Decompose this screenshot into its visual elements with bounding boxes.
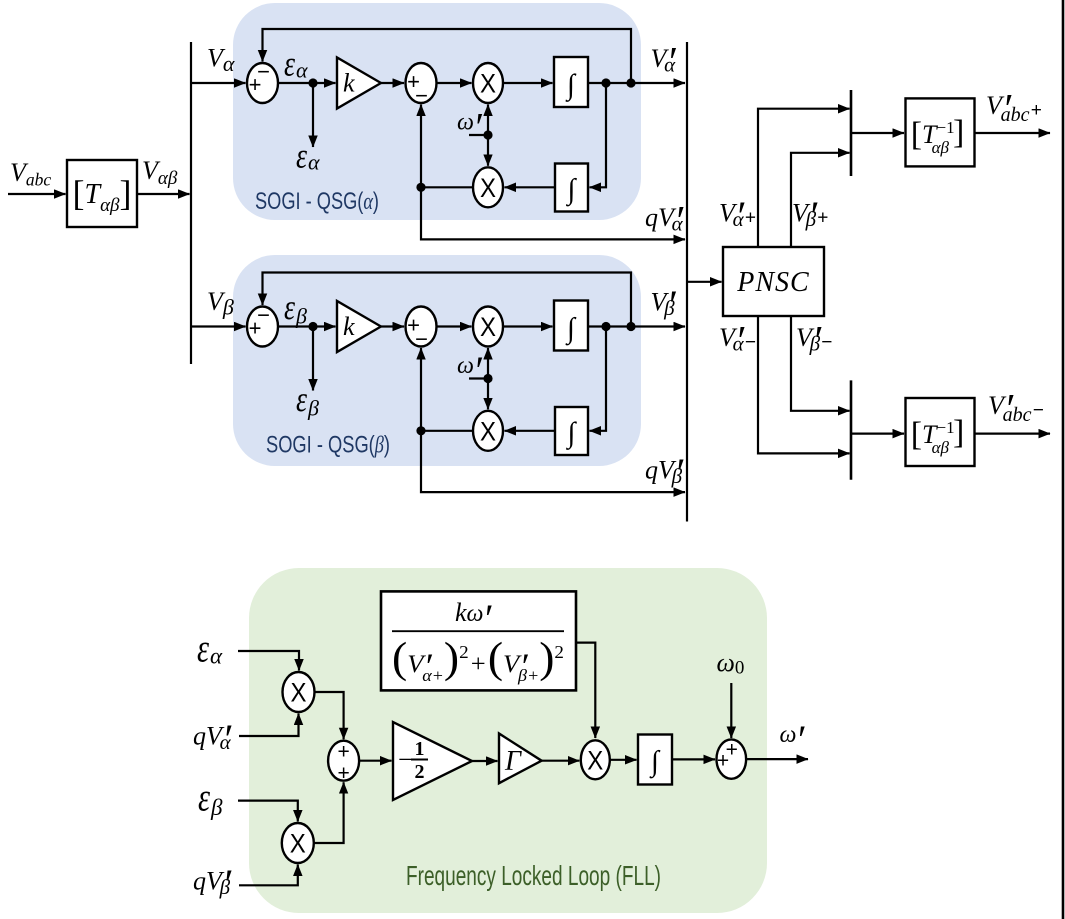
gain kb (triangle) bbox=[337, 301, 381, 352]
summer SF2 (+ +) bbox=[717, 739, 747, 778]
node dot eps branch bbox=[308, 78, 317, 87]
wire X1b to integrator I1b bbox=[503, 325, 553, 327]
svg-text:−: − bbox=[415, 327, 428, 352]
multiplier X1a bbox=[473, 63, 503, 103]
block Tab [T_ab] bbox=[67, 160, 137, 227]
wire eps_beta into X2f bbox=[238, 801, 298, 822]
SOGI-QSG(beta) background block bbox=[233, 255, 641, 466]
node dot feedback at output line bbox=[626, 78, 635, 87]
integrator IF bbox=[638, 735, 672, 785]
svg-text:[T−1αβ]: [T−1αβ] bbox=[911, 114, 965, 157]
wire qVb' into X2f bbox=[239, 865, 298, 886]
svg-text:k: k bbox=[343, 69, 355, 98]
wire omega' stub a bbox=[469, 134, 488, 136]
wire junction up to S2b minus input bbox=[420, 348, 422, 431]
wire X2a to junction bbox=[421, 186, 473, 188]
multiplier X2f bbox=[282, 823, 314, 863]
svg-text:ε: ε bbox=[296, 379, 308, 419]
svg-text:k: k bbox=[343, 312, 355, 341]
wire collector to Tab-inv (pos) bbox=[851, 132, 904, 134]
svg-text:β: β bbox=[307, 396, 319, 421]
block Tab-inv positive bbox=[906, 98, 975, 166]
svg-text:X: X bbox=[480, 173, 496, 203]
FLL background block bbox=[249, 568, 767, 913]
wire X1a to integrator I1a bbox=[503, 82, 553, 84]
wire omega' down into X2a bbox=[487, 135, 489, 166]
svg-text:X: X bbox=[480, 312, 496, 342]
svg-text:Frequency Locked Loop (FLL): Frequency Locked Loop (FLL) bbox=[406, 860, 661, 891]
wire eps_beta tap (down arrow) bbox=[312, 327, 314, 391]
node dot omega' center a bbox=[483, 130, 492, 139]
wire omega' stub b bbox=[469, 377, 488, 379]
wire Vabc into Tab bbox=[8, 193, 66, 195]
wire Vbeta into summer S1b bbox=[191, 325, 246, 327]
wire IF to summer SF2 bbox=[672, 758, 715, 760]
svg-text:+: + bbox=[337, 741, 349, 764]
svg-text:−: − bbox=[257, 59, 270, 84]
SOGI-QSG(alpha) background block bbox=[233, 3, 641, 220]
integrator I1a bbox=[554, 57, 588, 107]
node dot qVbeta' junction bbox=[416, 426, 425, 435]
wire eps_alpha into X1f bbox=[238, 651, 299, 671]
multiplier X2b bbox=[473, 411, 503, 451]
svg-text:X: X bbox=[587, 746, 603, 776]
node dot feedback at output line bbox=[626, 322, 635, 331]
svg-text:−: − bbox=[257, 303, 270, 328]
wire Va+ output of PNSC to top collector bbox=[758, 109, 850, 247]
svg-text:X: X bbox=[291, 678, 307, 708]
summer S2b bbox=[406, 307, 437, 347]
svg-text:+: + bbox=[337, 762, 349, 785]
wire S1a output to gain ka bbox=[278, 82, 336, 84]
wire X1f to summer SF bbox=[315, 692, 344, 739]
summer SF (+ +) bbox=[328, 741, 359, 781]
gain Gamma (triangle) bbox=[499, 734, 542, 784]
svg-text:α: α bbox=[296, 58, 308, 83]
wire vertical bus (SOGI outputs) bbox=[686, 42, 688, 522]
svg-text:−: − bbox=[398, 745, 413, 774]
summer S2a bbox=[406, 63, 437, 103]
wire vertical split line (Va/Vb bus) bbox=[190, 42, 192, 364]
svg-text:Γ: Γ bbox=[504, 746, 522, 777]
node dot qValpha' junction bbox=[416, 183, 425, 192]
wire collector to Tab-inv (neg) bbox=[851, 433, 904, 435]
wire Gamma to X3f bbox=[542, 760, 580, 762]
svg-text:ε: ε bbox=[198, 775, 210, 820]
wire Vb- output of PNSC to bottom collector bbox=[791, 316, 850, 411]
wire SF to gain -1/2 bbox=[359, 760, 392, 762]
wire qVa' into X1f bbox=[239, 714, 299, 737]
wire -1/2 to gain Gamma bbox=[472, 760, 498, 762]
collector bar (negative sequence) bbox=[850, 380, 853, 479]
wire S2b to multiplier X1b bbox=[437, 325, 472, 327]
gain -1/2 (triangle) bbox=[393, 722, 472, 800]
svg-text:−: − bbox=[415, 83, 428, 108]
collector bar (positive sequence) bbox=[850, 90, 853, 176]
multiplier X1f bbox=[283, 672, 315, 712]
svg-text:ε: ε bbox=[296, 136, 308, 176]
multiplier X1b bbox=[473, 307, 503, 347]
svg-text:α: α bbox=[210, 644, 223, 669]
summer S1a bbox=[247, 63, 278, 103]
wire Tab output to split node bbox=[137, 193, 190, 195]
wire S2a to multiplier X1a bbox=[437, 82, 472, 84]
wire qValpha' out to bus bbox=[421, 187, 685, 239]
svg-text:α: α bbox=[308, 150, 320, 175]
wire X3f to integrator IF bbox=[610, 759, 637, 761]
node dot I1a output branch bbox=[601, 78, 610, 87]
wire omega_0 into SF2 bbox=[730, 683, 732, 738]
svg-text:ε: ε bbox=[197, 626, 209, 671]
svg-text:1: 1 bbox=[415, 738, 425, 760]
svg-text:ε: ε bbox=[284, 44, 296, 84]
page border line (right edge) bbox=[1062, 0, 1065, 919]
svg-text:PNSC: PNSC bbox=[736, 267, 809, 298]
integrator I1b bbox=[554, 301, 588, 351]
wire I2b to multiplier X2b bbox=[505, 430, 556, 432]
wire omega' down into X2b bbox=[487, 379, 489, 410]
svg-text:X: X bbox=[480, 69, 496, 99]
svg-text:SOGI - QSG(β): SOGI - QSG(β) bbox=[266, 432, 390, 459]
wire eps_alpha tap (down arrow) bbox=[312, 83, 314, 147]
wire I2a to multiplier X2a bbox=[505, 186, 556, 188]
block PNSC bbox=[723, 247, 824, 316]
wire X2b to junction bbox=[421, 430, 473, 432]
wire normalization box to X3f bbox=[576, 643, 595, 738]
svg-text:X: X bbox=[480, 417, 496, 447]
multiplier X2a bbox=[473, 167, 503, 207]
wire Vabc+ output bbox=[975, 132, 1050, 134]
svg-text:β: β bbox=[210, 795, 223, 820]
block Tab-inv negative bbox=[906, 398, 975, 466]
wire omega' up into X1b bbox=[487, 348, 489, 379]
svg-text:β: β bbox=[295, 304, 307, 329]
gain normalization box kw'/((Va+)^2+(Vb+)^2) bbox=[381, 591, 576, 690]
wire Vbeta' down to integrator I2b bbox=[590, 327, 607, 431]
wire qVbeta' out to bus bbox=[421, 431, 685, 492]
node dot omega' center b bbox=[483, 374, 492, 383]
summer S1b bbox=[247, 307, 278, 347]
svg-text:2: 2 bbox=[415, 761, 425, 783]
wire Vb+ output of PNSC to top collector bbox=[791, 153, 850, 247]
wire X2f to summer SF bbox=[314, 782, 344, 843]
wire Va- output of PNSC to bottom collector bbox=[758, 316, 850, 453]
wire bus to PNSC input bbox=[687, 281, 722, 283]
node dot eps branch bbox=[308, 322, 317, 331]
wire Vabc- output bbox=[975, 433, 1050, 435]
wire kb to summer S2b bbox=[381, 325, 404, 327]
wire feedback Valpha' to S1a minus input bbox=[263, 29, 632, 83]
svg-text:SOGI - QSG(α): SOGI - QSG(α) bbox=[255, 188, 379, 215]
wire Valpha' down to integrator I2a bbox=[590, 83, 607, 187]
wire omega' up into X1a bbox=[487, 105, 489, 136]
svg-text:[T−1αβ]: [T−1αβ] bbox=[911, 414, 965, 457]
wire omega' output bbox=[746, 758, 808, 760]
node dot I1b output branch bbox=[601, 322, 610, 331]
wire I1b output Vbeta' to bus bbox=[588, 325, 685, 327]
wire I1a output Valpha' to bus bbox=[588, 82, 685, 84]
wire Valpha into summer S1a bbox=[191, 82, 246, 84]
wire S1b output to gain kb bbox=[278, 325, 336, 327]
integrator I2b bbox=[555, 407, 588, 455]
wire feedback Vbeta' to S1b minus input bbox=[263, 273, 632, 327]
integrator I2a bbox=[555, 164, 588, 212]
gain ka (triangle) bbox=[337, 58, 381, 109]
svg-text:X: X bbox=[290, 829, 306, 859]
svg-text:ε: ε bbox=[284, 287, 296, 327]
wire ka to summer S2a bbox=[381, 82, 404, 84]
svg-text:+: + bbox=[717, 750, 729, 773]
multiplier X3f bbox=[581, 740, 610, 779]
wire junction up to S2a minus input bbox=[420, 105, 422, 188]
